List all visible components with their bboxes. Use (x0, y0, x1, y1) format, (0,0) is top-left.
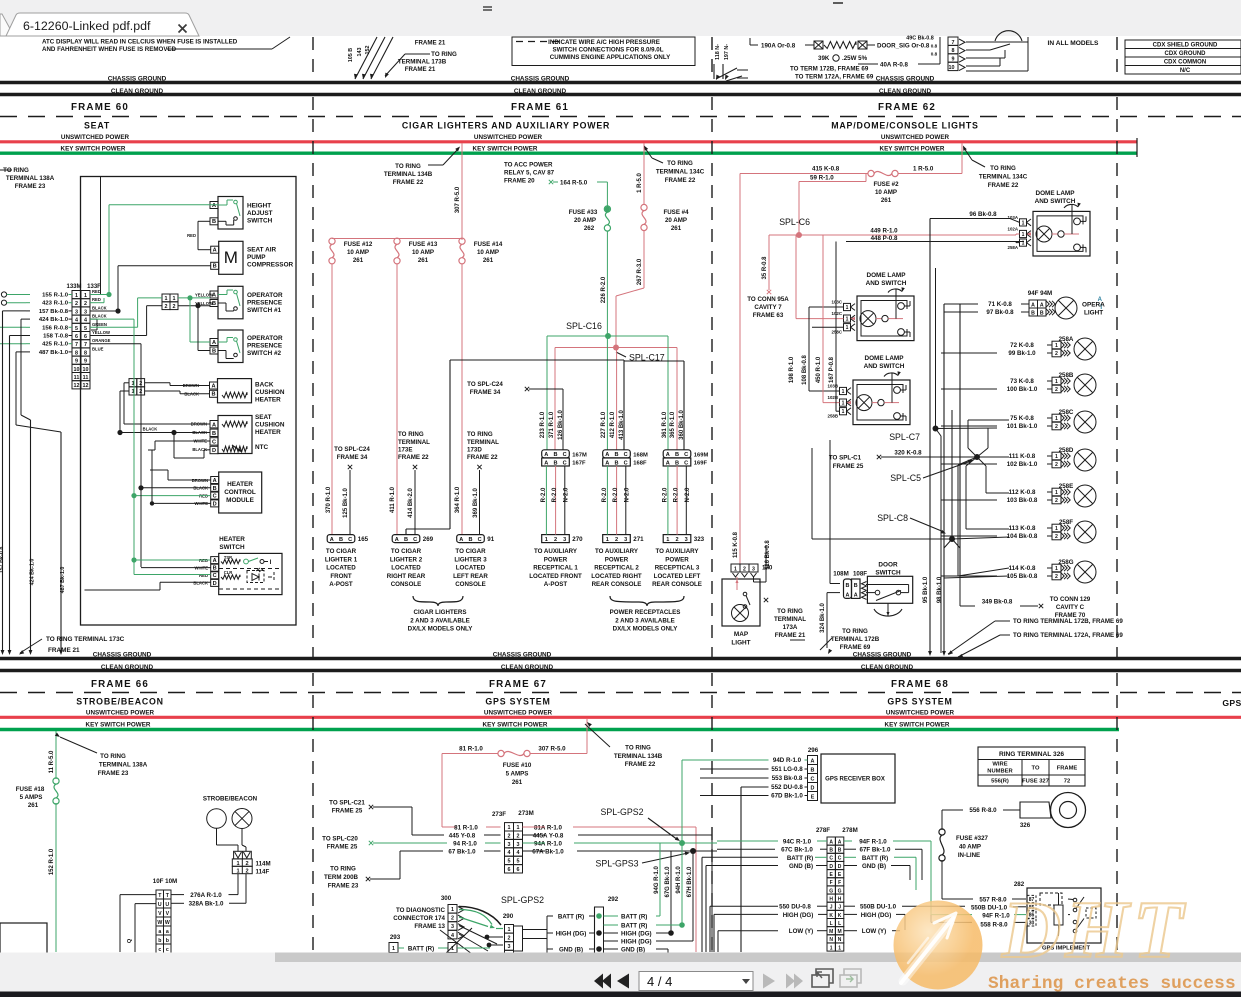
svg-text:FRAME 23: FRAME 23 (98, 770, 129, 777)
svg-text:CONTROL: CONTROL (224, 489, 256, 496)
svg-text:1: 1 (451, 907, 454, 913)
svg-text:FRAME 63: FRAME 63 (753, 312, 784, 319)
svg-text:1: 1 (842, 389, 845, 395)
svg-text:SWITCH #2: SWITCH #2 (247, 350, 282, 357)
svg-text:258C: 258C (832, 330, 843, 335)
svg-text:FUSE #10: FUSE #10 (503, 762, 532, 769)
svg-text:GREEN: GREEN (92, 322, 107, 327)
svg-text:TERMINAL: TERMINAL (774, 616, 806, 623)
svg-text:550B DU-1.0: 550B DU-1.0 (860, 904, 897, 911)
svg-text:226 R-2.0: 226 R-2.0 (601, 276, 607, 303)
svg-text:412 R-1.0: 412 R-1.0 (610, 411, 616, 438)
svg-text:3: 3 (563, 537, 566, 543)
svg-text:6: 6 (75, 334, 78, 340)
svg-text:552 DU-0.8: 552 DU-0.8 (771, 784, 803, 791)
svg-text:2: 2 (173, 304, 176, 310)
svg-text:FRAME 25: FRAME 25 (332, 808, 363, 815)
svg-text:TO RING: TO RING (990, 165, 1016, 172)
svg-text:C: C (413, 537, 417, 543)
svg-text:369 Bk-1.0: 369 Bk-1.0 (473, 487, 479, 517)
svg-text:370 R-1.0: 370 R-1.0 (326, 486, 332, 513)
svg-text:73 K-0.8: 73 K-0.8 (1010, 378, 1034, 385)
svg-text:GPS SYSTEM: GPS SYSTEM (485, 697, 550, 707)
svg-text:445 Y-0.8: 445 Y-0.8 (449, 833, 476, 840)
svg-text:AND SWITCH: AND SWITCH (864, 363, 905, 370)
svg-text:81 R-1.0: 81 R-1.0 (454, 825, 478, 832)
svg-text:2 AND 3 AVAILABLE: 2 AND 3 AVAILABLE (615, 617, 674, 624)
svg-text:2: 2 (1055, 351, 1058, 357)
svg-text:M: M (829, 929, 833, 935)
svg-text:157 Bk-0.8: 157 Bk-0.8 (0, 547, 5, 574)
svg-text:113 K-0.8: 113 K-0.8 (1009, 525, 1036, 532)
svg-text:94G R-1.0: 94G R-1.0 (654, 866, 660, 894)
svg-text:MAP: MAP (734, 631, 749, 638)
svg-text:b: b (166, 938, 169, 944)
svg-text:GND (B): GND (B) (862, 863, 886, 870)
svg-text:1: 1 (842, 401, 845, 407)
svg-text:3: 3 (84, 309, 87, 315)
svg-text:AND SWITCH: AND SWITCH (866, 280, 907, 287)
svg-text:450 R-1.0: 450 R-1.0 (816, 356, 822, 383)
svg-text:IN-LINE: IN-LINE (958, 852, 980, 859)
svg-text:164 R-5.0: 164 R-5.0 (560, 180, 588, 187)
svg-text:0.8: 0.8 (931, 44, 938, 49)
svg-text:415 K-0.8: 415 K-0.8 (812, 166, 840, 173)
svg-text:269: 269 (423, 536, 434, 543)
svg-text:TO CIGAR: TO CIGAR (455, 548, 486, 555)
svg-text:1: 1 (173, 296, 176, 302)
svg-text:LOCATED: LOCATED (456, 565, 486, 572)
svg-text:95 Bk-1.0: 95 Bk-1.0 (923, 576, 929, 603)
svg-text:449 R-1.0: 449 R-1.0 (870, 228, 898, 235)
svg-text:D: D (213, 581, 217, 587)
svg-text:2: 2 (451, 916, 454, 922)
svg-text:CLEAN GROUND: CLEAN GROUND (879, 88, 932, 95)
svg-text:1: 1 (451, 946, 454, 952)
svg-text:FUSE 327: FUSE 327 (1022, 779, 1049, 785)
svg-text:SPL-C8: SPL-C8 (877, 513, 908, 523)
svg-text:413 Bk-1.0: 413 Bk-1.0 (619, 409, 625, 439)
svg-text:8: 8 (75, 350, 78, 356)
svg-text:A: A (212, 422, 216, 428)
svg-text:101 Bk-1.0: 101 Bk-1.0 (1007, 423, 1038, 430)
svg-text:CONNECTOR 174: CONNECTOR 174 (393, 915, 445, 922)
svg-text:DOME LAMP: DOME LAMP (864, 355, 904, 362)
svg-text:67F Bk-1.0: 67F Bk-1.0 (860, 847, 892, 854)
svg-text:96 Bk-0.8: 96 Bk-0.8 (969, 211, 997, 218)
svg-text:RED: RED (92, 289, 101, 294)
svg-text:FRAME 21: FRAME 21 (775, 632, 806, 639)
svg-text:HIGH (DG): HIGH (DG) (621, 939, 652, 946)
svg-text:FRAME 22: FRAME 22 (393, 179, 424, 186)
svg-text:ATC DISPLAY WILL READ IN CELCI: ATC DISPLAY WILL READ IN CELCIUS WHEN FU… (42, 39, 238, 46)
svg-text:SWITCH #1: SWITCH #1 (247, 307, 282, 314)
svg-text:8: 8 (952, 48, 955, 54)
svg-text:A: A (212, 203, 216, 209)
svg-text:115 K-0.8: 115 K-0.8 (733, 531, 739, 558)
svg-text:10 AMP: 10 AMP (412, 249, 434, 256)
svg-text:103 Bk-0.8: 103 Bk-0.8 (1007, 497, 1038, 504)
svg-text:CHASSIS GROUND: CHASSIS GROUND (853, 652, 912, 659)
svg-text:TO TERM 172A, FRAME 69: TO TERM 172A, FRAME 69 (795, 74, 874, 81)
svg-text:227 R-1.0: 227 R-1.0 (601, 411, 607, 438)
svg-text:TO CONN 95A: TO CONN 95A (747, 296, 789, 303)
svg-text:LOW (Y): LOW (Y) (862, 928, 886, 935)
svg-text:SEAT: SEAT (255, 414, 272, 421)
svg-text:445A Y-0.8: 445A Y-0.8 (533, 833, 564, 840)
svg-text:TO SPL-C1: TO SPL-C1 (829, 455, 862, 462)
svg-text:UNSWITCHED POWER: UNSWITCHED POWER (886, 710, 955, 717)
svg-text:2: 2 (1055, 424, 1058, 430)
svg-text:157 Bk-0.8: 157 Bk-0.8 (39, 309, 69, 315)
svg-text:6: 6 (508, 867, 511, 873)
svg-text:A: A (1031, 302, 1035, 308)
svg-text:10: 10 (83, 367, 89, 373)
svg-text:CONSOLE: CONSOLE (455, 581, 486, 588)
svg-text:72 K-0.8: 72 K-0.8 (1010, 342, 1034, 349)
svg-text:1: 1 (75, 293, 78, 299)
svg-text:TO RING: TO RING (777, 608, 803, 615)
svg-text:C: C (348, 537, 352, 543)
svg-text:1: 1 (517, 825, 520, 831)
svg-text:1: 1 (508, 825, 511, 831)
svg-text:HEATER: HEATER (255, 397, 281, 404)
svg-text:C: C (212, 440, 216, 446)
svg-text:3: 3 (517, 842, 520, 848)
svg-text:114F: 114F (256, 869, 270, 876)
svg-text:167F: 167F (572, 461, 586, 467)
svg-text:MAP/DOME/CONSOLE LIGHTS: MAP/DOME/CONSOLE LIGHTS (831, 121, 978, 131)
svg-text:N-2.0: N-2.0 (685, 487, 691, 502)
svg-text:FRONT: FRONT (330, 573, 352, 580)
svg-text:168F: 168F (633, 461, 647, 467)
svg-text:D: D (829, 864, 833, 870)
svg-text:40A R-0.8: 40A R-0.8 (880, 62, 909, 69)
svg-text:296: 296 (808, 747, 819, 754)
svg-text:KEY SWITCH POWER: KEY SWITCH POWER (61, 146, 126, 153)
svg-text:M: M (224, 248, 238, 267)
svg-text:KEY SWITCH POWER: KEY SWITCH POWER (473, 146, 538, 153)
svg-text:TO SPL-C24: TO SPL-C24 (334, 446, 370, 453)
svg-text:CUSHION: CUSHION (255, 389, 285, 396)
svg-text:94A R-1.0: 94A R-1.0 (534, 841, 563, 848)
svg-text:3: 3 (508, 842, 511, 848)
svg-text:553 Bk-0.8: 553 Bk-0.8 (772, 775, 803, 782)
svg-text:B: B (213, 486, 217, 492)
svg-text:TO RING: TO RING (842, 628, 868, 635)
svg-text:E: E (811, 795, 815, 801)
svg-text:SWITCH: SWITCH (219, 544, 245, 551)
svg-text:5: 5 (508, 859, 511, 865)
svg-text:LOCATED LEFT: LOCATED LEFT (654, 573, 701, 580)
svg-text:BATT (R): BATT (R) (862, 855, 888, 862)
svg-text:WIRE: WIRE (992, 762, 1007, 768)
svg-text:59 R-1.0: 59 R-1.0 (810, 175, 834, 182)
svg-text:TERMINAL: TERMINAL (467, 439, 499, 446)
svg-text:CLEAN GROUND: CLEAN GROUND (501, 664, 554, 671)
svg-text:1: 1 (846, 325, 849, 331)
svg-text:F: F (830, 880, 833, 886)
svg-text:11 R-5.0: 11 R-5.0 (49, 750, 55, 773)
svg-text:4: 4 (508, 850, 511, 856)
svg-text:10: 10 (949, 65, 955, 71)
svg-text:67C Bk-1.0: 67C Bk-1.0 (781, 847, 813, 854)
svg-text:B: B (212, 219, 216, 225)
svg-text:FRAME 23: FRAME 23 (15, 183, 46, 190)
svg-text:V: V (166, 911, 170, 917)
svg-text:TO AUXILIARY: TO AUXILIARY (655, 548, 699, 555)
svg-text:BATT (R): BATT (R) (558, 914, 584, 921)
svg-text:2: 2 (1055, 498, 1058, 504)
svg-text:97 Bk-0.8: 97 Bk-0.8 (986, 309, 1014, 316)
svg-text:LOCATED RIGHT: LOCATED RIGHT (591, 573, 642, 580)
svg-text:FRAME 34: FRAME 34 (337, 454, 368, 461)
svg-text:D: D (811, 786, 815, 792)
svg-text:550 DU-0.8: 550 DU-0.8 (779, 904, 811, 911)
svg-text:197 N-: 197 N- (724, 44, 730, 60)
svg-text:CHASSIS GROUND: CHASSIS GROUND (108, 76, 167, 83)
svg-text:LIGHT: LIGHT (1084, 310, 1103, 317)
svg-text:C: C (624, 460, 628, 466)
svg-text:94C R-1.0: 94C R-1.0 (783, 839, 812, 846)
svg-text:81A R-1.0: 81A R-1.0 (534, 825, 563, 832)
svg-text:LIGHTER 2: LIGHTER 2 (390, 556, 423, 563)
svg-text:BACK: BACK (255, 382, 274, 389)
svg-text:TERM 200B: TERM 200B (324, 874, 359, 881)
svg-text:323: 323 (694, 536, 705, 543)
svg-text:278M: 278M (842, 827, 857, 834)
svg-text:5 AMPS: 5 AMPS (20, 794, 43, 801)
svg-text:A: A (838, 839, 842, 845)
svg-text:2: 2 (165, 304, 168, 310)
svg-text:DOME LAMP: DOME LAMP (866, 272, 906, 279)
svg-text:TO RING: TO RING (100, 753, 126, 760)
svg-text:B: B (213, 566, 217, 572)
svg-text:TO RING TERMINAL 172A, FRAME 6: TO RING TERMINAL 172A, FRAME 69 (1013, 632, 1123, 639)
svg-text:B: B (553, 460, 557, 466)
svg-text:D: D (213, 501, 217, 507)
svg-text:FRAME 66: FRAME 66 (91, 679, 149, 690)
svg-text:C: C (563, 460, 567, 466)
svg-text:1: 1 (838, 945, 841, 951)
svg-text:4: 4 (75, 318, 78, 324)
svg-text:B: B (811, 768, 815, 774)
svg-text:125 Bk-1.0: 125 Bk-1.0 (343, 487, 349, 517)
svg-text:GPS RECEIVER BOX: GPS RECEIVER BOX (825, 777, 885, 783)
svg-text:7: 7 (952, 40, 955, 46)
svg-text:FUSE #14: FUSE #14 (474, 241, 503, 248)
svg-text:A-POST: A-POST (544, 581, 568, 588)
svg-text:UNSWITCHED POWER: UNSWITCHED POWER (86, 710, 155, 717)
svg-text:114M: 114M (256, 861, 271, 868)
svg-text:K: K (838, 913, 842, 919)
svg-text:FRAME 60: FRAME 60 (71, 102, 129, 113)
svg-text:271: 271 (633, 536, 644, 543)
svg-text:10F 10M: 10F 10M (153, 878, 177, 885)
svg-text:105 Bk-0.8: 105 Bk-0.8 (1007, 573, 1038, 580)
svg-text:B: B (614, 460, 618, 466)
svg-text:6: 6 (84, 334, 87, 340)
svg-text:5: 5 (517, 859, 520, 865)
svg-text:556(R): 556(R) (991, 779, 1009, 785)
svg-text:POWER: POWER (665, 556, 689, 563)
svg-text:261: 261 (671, 225, 682, 232)
svg-text:REAR CONSOLE: REAR CONSOLE (592, 581, 642, 588)
svg-text:W: W (157, 920, 162, 926)
svg-text:.25W 5%: .25W 5% (842, 55, 868, 62)
svg-text:TO RING: TO RING (398, 431, 424, 438)
svg-text:GND (B): GND (B) (559, 947, 583, 954)
svg-text:HIGH (DG): HIGH (DG) (861, 912, 892, 919)
svg-text:R-2.0: R-2.0 (602, 487, 608, 502)
svg-text:261: 261 (353, 257, 364, 264)
svg-text:11: 11 (83, 375, 89, 381)
svg-text:TO CONN 129: TO CONN 129 (1050, 596, 1091, 603)
svg-text:1: 1 (842, 409, 845, 415)
svg-text:424 Bk-1.0: 424 Bk-1.0 (30, 559, 36, 586)
svg-text:2: 2 (1055, 534, 1058, 540)
svg-text:RELAY 5, CAV 87: RELAY 5, CAV 87 (504, 170, 555, 177)
svg-text:TO CIGAR: TO CIGAR (391, 548, 422, 555)
svg-text:3: 3 (752, 567, 755, 573)
svg-text:DOOR_SIG Or-0.8: DOOR_SIG Or-0.8 (877, 43, 930, 50)
svg-text:39K: 39K (818, 55, 830, 62)
svg-text:FRAME 25: FRAME 25 (833, 463, 864, 470)
svg-text:152 R-1.0: 152 R-1.0 (49, 848, 55, 875)
svg-text:423 R-1.0: 423 R-1.0 (42, 301, 69, 307)
svg-text:REAR CONSOLE: REAR CONSOLE (652, 581, 702, 588)
svg-text:2: 2 (615, 537, 618, 543)
svg-text:L: L (830, 921, 833, 927)
svg-text:A: A (666, 460, 670, 466)
svg-text:TO SPL-C24: TO SPL-C24 (467, 381, 503, 388)
svg-text:RECEPTICAL 3: RECEPTICAL 3 (655, 565, 700, 572)
svg-text:156 R-0.8: 156 R-0.8 (42, 325, 69, 331)
svg-text:67G Bk-1.0: 67G Bk-1.0 (665, 866, 671, 898)
svg-text:2: 2 (75, 301, 78, 307)
svg-text:RED: RED (199, 573, 208, 578)
svg-text:N-2.0: N-2.0 (563, 487, 569, 502)
svg-text:B: B (1031, 310, 1035, 316)
svg-text:4 / 4: 4 / 4 (647, 974, 672, 989)
svg-text:B: B (211, 392, 215, 398)
svg-text:5 AMPS: 5 AMPS (506, 771, 529, 778)
svg-text:CHASSIS GROUND: CHASSIS GROUND (876, 76, 935, 83)
svg-text:Sharing creates success: Sharing creates success (988, 974, 1236, 994)
svg-text:FUSE #4: FUSE #4 (663, 209, 689, 216)
svg-text:TERMINAL 172B: TERMINAL 172B (831, 636, 880, 643)
svg-text:94F R-1.0: 94F R-1.0 (859, 839, 887, 846)
svg-text:C: C (478, 537, 482, 543)
svg-text:6: 6 (517, 867, 520, 873)
svg-text:2: 2 (1055, 462, 1058, 468)
svg-text:FUSE #2: FUSE #2 (873, 181, 899, 188)
svg-text:C: C (811, 777, 815, 783)
svg-text:A: A (829, 839, 833, 845)
svg-text:B: B (846, 583, 850, 589)
svg-text:NTC: NTC (255, 444, 269, 451)
svg-text:ORANGE: ORANGE (92, 338, 111, 343)
svg-text:1: 1 (236, 868, 239, 874)
svg-text:TO AUXILIARY: TO AUXILIARY (595, 548, 639, 555)
svg-text:SPL-C6: SPL-C6 (779, 217, 810, 227)
svg-text:1: 1 (1022, 220, 1025, 226)
svg-text:364 R-1.0: 364 R-1.0 (455, 486, 461, 513)
svg-text:116 Bk-0.8: 116 Bk-0.8 (765, 540, 771, 570)
svg-text:20 AMP: 20 AMP (665, 217, 687, 224)
svg-text:FRAME 61: FRAME 61 (511, 102, 569, 113)
svg-text:C: C (684, 460, 688, 466)
svg-text:N: N (838, 937, 842, 943)
svg-text:R-2.0: R-2.0 (613, 487, 619, 502)
svg-text:A: A (213, 478, 217, 484)
svg-text:SWITCH CONNECTIONS FOR 8.0/9.0: SWITCH CONNECTIONS FOR 8.0/9.0L (552, 47, 663, 54)
svg-text:TO RING: TO RING (667, 160, 693, 167)
svg-text:A: A (395, 537, 399, 543)
svg-text:HIGH (DG): HIGH (DG) (621, 931, 652, 938)
svg-text:FRAME 67: FRAME 67 (489, 679, 547, 690)
svg-text:TO ACC POWER: TO ACC POWER (504, 162, 553, 169)
svg-text:2: 2 (508, 833, 511, 839)
svg-text:71 K-0.8: 71 K-0.8 (988, 301, 1012, 308)
svg-text:94H R-1.0: 94H R-1.0 (676, 866, 682, 894)
svg-text:0.8: 0.8 (931, 52, 938, 57)
svg-text:1 R-5.0: 1 R-5.0 (913, 166, 934, 173)
svg-text:7: 7 (75, 342, 78, 348)
svg-text:AND FAHRENHEIT WHEN FUSE IS RE: AND FAHRENHEIT WHEN FUSE IS REMOVED (42, 46, 177, 53)
svg-text:POWER: POWER (544, 556, 568, 563)
svg-text:B: B (212, 348, 216, 354)
svg-text:278F: 278F (816, 827, 830, 834)
svg-text:LOCATED: LOCATED (326, 565, 356, 572)
svg-text:CDX COMMON: CDX COMMON (1164, 60, 1206, 66)
svg-text:B: B (675, 452, 679, 458)
svg-text:12: 12 (74, 383, 80, 389)
svg-text:8: 8 (84, 350, 87, 356)
svg-text:HEATER: HEATER (219, 536, 245, 543)
svg-text:2: 2 (743, 567, 746, 573)
svg-text:261: 261 (28, 802, 39, 809)
svg-text:CHASSIS GROUND: CHASSIS GROUND (511, 76, 570, 83)
svg-text:TO SPL-C21: TO SPL-C21 (329, 800, 365, 807)
svg-text:1: 1 (1055, 416, 1058, 422)
svg-text:R-2.0: R-2.0 (662, 487, 668, 502)
svg-text:1: 1 (666, 537, 669, 543)
svg-text:91: 91 (487, 536, 494, 543)
svg-text:RED: RED (92, 297, 101, 302)
svg-text:A-POST: A-POST (329, 581, 353, 588)
svg-text:B: B (339, 537, 343, 543)
svg-text:TO RING: TO RING (431, 51, 457, 58)
svg-text:3: 3 (624, 537, 627, 543)
svg-text:270: 270 (572, 536, 583, 543)
svg-text:99 Bk-1.0: 99 Bk-1.0 (1008, 350, 1036, 357)
svg-text:B: B (213, 264, 217, 270)
svg-text:100 Bk-1.0: 100 Bk-1.0 (1007, 386, 1038, 393)
svg-text:262: 262 (584, 225, 595, 232)
svg-text:b: b (158, 938, 161, 944)
svg-text:3: 3 (75, 309, 78, 315)
svg-text:75 K-0.8: 75 K-0.8 (1010, 415, 1034, 422)
svg-text:67 Bk-1.0: 67 Bk-1.0 (448, 849, 476, 856)
svg-text:108M: 108M (833, 571, 848, 578)
svg-text:DX/LX MODELS ONLY: DX/LX MODELS ONLY (408, 626, 474, 633)
svg-text:FRAME 23: FRAME 23 (328, 883, 359, 890)
svg-text:H: H (838, 896, 842, 902)
svg-text:SEAT AIR: SEAT AIR (247, 247, 276, 254)
svg-text:102 Bk-1.0: 102 Bk-1.0 (1007, 461, 1038, 468)
svg-text:10: 10 (74, 367, 80, 373)
